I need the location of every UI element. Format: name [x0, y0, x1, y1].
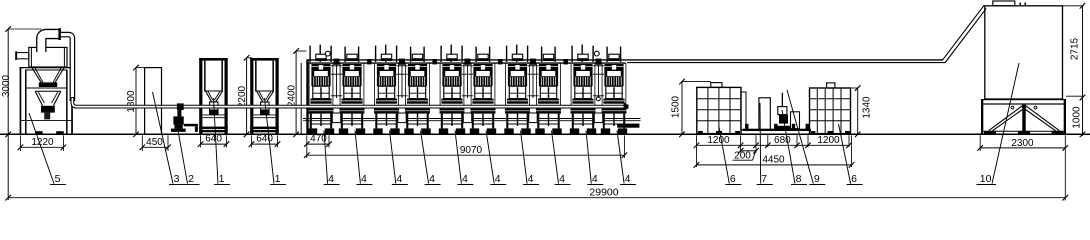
leader label 4	[521, 131, 540, 185]
leader label 9	[787, 90, 825, 185]
svg-text:4: 4	[625, 173, 631, 185]
press pair link rods	[528, 65, 539, 98]
press pair coupling	[399, 59, 405, 65]
inlet stub pipe of unit 5	[15, 51, 29, 60]
dimension 200	[733, 147, 759, 162]
filter press 4 unit 10	[601, 47, 627, 134]
svg-text:3: 3	[174, 173, 180, 185]
cabinet unit 7	[759, 98, 770, 130]
dimension 470	[304, 134, 332, 148]
dimension 640	[249, 134, 281, 148]
press pair link rods	[331, 65, 342, 98]
svg-text:4: 4	[559, 173, 565, 185]
press pair lower box	[463, 113, 471, 123]
dosing pump unit 8	[775, 93, 790, 130]
svg-text:640: 640	[256, 134, 273, 145]
svg-text:9070: 9070	[460, 145, 483, 156]
svg-text:1200: 1200	[707, 135, 730, 146]
dimension 1500	[671, 79, 711, 137]
pipe flange	[58, 28, 61, 40]
svg-text:1340: 1340	[862, 96, 873, 119]
pipe riser to silo	[942, 5, 986, 63]
press gap coupling	[367, 59, 372, 64]
filter press 4 unit 5	[439, 45, 465, 134]
press pair link rods	[462, 65, 473, 98]
press pair lower box	[529, 113, 537, 123]
svg-text:2: 2	[188, 173, 194, 185]
panel behind tank 6 left	[741, 92, 746, 130]
press pair link rods	[593, 65, 604, 98]
leader label 4	[455, 131, 473, 185]
press gap coupling	[498, 59, 503, 64]
press pair link rods	[397, 65, 408, 98]
leader label 4	[617, 131, 636, 185]
exhaust pipe from cyclone (wide elbow)	[41, 34, 59, 53]
press pair coupling	[334, 59, 340, 65]
filter press 4 unit 3	[373, 45, 399, 134]
filter press 4 unit 2	[339, 47, 365, 134]
press row conveyor lines	[303, 119, 641, 121]
hopper unit 1 (left)	[199, 58, 228, 134]
svg-text:4: 4	[462, 173, 468, 185]
filter press 4 unit 9	[570, 45, 596, 134]
svg-text:680: 680	[774, 135, 791, 146]
dimension 29900	[5, 135, 1068, 200]
dimension 2200	[237, 55, 252, 137]
leader label 4	[324, 131, 340, 185]
pipe end flange	[624, 103, 629, 110]
leader label 3	[153, 92, 186, 185]
leader label 1	[214, 98, 231, 185]
cyclone vessel of unit 5	[29, 47, 67, 67]
svg-text:6: 6	[851, 173, 857, 185]
svg-text:4450: 4450	[762, 154, 785, 165]
pipe down-leg elbow	[61, 35, 73, 101]
dimension 4450	[694, 135, 855, 168]
dimension 3000	[1, 26, 42, 200]
svg-text:3000: 3000	[1, 74, 12, 97]
dust collector unit 5 frame	[20, 67, 73, 134]
IBC tank 6 right	[810, 83, 851, 134]
ground line	[0, 133, 1090, 135]
svg-text:4: 4	[495, 173, 501, 185]
dimension 9070	[304, 135, 627, 158]
leader label 8	[782, 110, 807, 185]
filter press 4 unit 7	[504, 45, 530, 134]
funnel and discharge of unit 5	[32, 67, 65, 119]
svg-text:2715: 2715	[1070, 37, 1081, 60]
filter press 4 unit 4	[404, 47, 430, 134]
press gap coupling	[563, 59, 568, 64]
svg-text:1500: 1500	[671, 95, 682, 118]
svg-text:5: 5	[55, 173, 61, 185]
svg-text:450: 450	[146, 137, 163, 148]
leader label 7	[757, 103, 773, 185]
svg-text:6: 6	[730, 173, 736, 185]
leader label 4	[355, 131, 372, 185]
svg-text:4: 4	[528, 173, 534, 185]
dimension 1220	[18, 135, 67, 151]
svg-text:4: 4	[429, 173, 435, 185]
leader label 6	[839, 124, 863, 185]
svg-text:4: 4	[396, 173, 402, 185]
svg-text:1: 1	[219, 173, 225, 185]
hopper unit 1 (right)	[250, 58, 279, 134]
filter press 4 unit 1	[308, 45, 334, 134]
leader label 5	[29, 113, 66, 185]
screen unit 3 (tall cabinet)	[145, 68, 162, 135]
dimension 450	[140, 135, 171, 151]
filter press 4 unit 6	[470, 47, 496, 134]
leader label 6	[719, 127, 741, 185]
press row top rail pipe	[306, 60, 944, 63]
svg-text:1200: 1200	[817, 135, 840, 146]
leader label 4	[586, 131, 603, 185]
pump unit 2	[171, 103, 198, 132]
dimension 2715	[1063, 3, 1086, 136]
dimension 640	[198, 134, 230, 148]
dimension 2400	[286, 48, 306, 137]
press pair coupling	[465, 59, 471, 65]
dimension 1800	[126, 65, 146, 137]
press pair lower box	[332, 113, 340, 123]
svg-text:1800: 1800	[126, 90, 137, 113]
leader label 4	[552, 131, 571, 185]
leader label 4	[421, 131, 441, 185]
press pair lower box	[398, 113, 406, 123]
leader label 10	[977, 63, 1020, 185]
dimensions 1200 680 1200	[694, 135, 852, 148]
svg-text:1: 1	[275, 173, 281, 185]
pipe manifold at tanks	[743, 124, 812, 131]
press pair lower box	[594, 113, 602, 123]
IBC tank 6 left	[697, 83, 741, 134]
svg-text:10: 10	[980, 173, 992, 185]
press pair coupling	[596, 59, 602, 65]
svg-text:640: 640	[205, 134, 222, 145]
svg-text:4: 4	[361, 173, 367, 185]
svg-text:29900: 29900	[589, 186, 618, 198]
filter press 4 unit 8	[535, 47, 561, 134]
svg-text:4: 4	[592, 173, 598, 185]
leader label 4	[390, 131, 408, 185]
svg-text:2400: 2400	[286, 84, 297, 107]
press row end frame post	[301, 60, 308, 134]
svg-text:8: 8	[796, 173, 802, 185]
press pair coupling	[530, 59, 536, 65]
tank unit 9	[791, 112, 800, 129]
svg-text:9: 9	[814, 173, 820, 185]
press valve wheel A	[325, 51, 330, 56]
conveyor discharge bar	[617, 124, 639, 128]
svg-text:1220: 1220	[31, 137, 54, 148]
dimension 1340	[851, 85, 873, 137]
leader label 2	[177, 122, 200, 185]
svg-text:1000: 1000	[1072, 106, 1083, 129]
svg-text:7: 7	[761, 173, 767, 185]
dimension 2300	[977, 135, 1068, 151]
press valve wheel B	[594, 51, 599, 56]
silo support stand	[981, 99, 1066, 134]
long suction pipe to presses	[72, 97, 627, 107]
svg-text:2300: 2300	[1011, 138, 1034, 149]
dimension 1000	[1072, 106, 1086, 137]
leader label 4	[486, 131, 506, 185]
press gap coupling	[432, 59, 437, 64]
press valve wheel C	[596, 97, 600, 101]
silo tank unit 10	[985, 1, 1063, 99]
svg-text:4: 4	[328, 173, 334, 185]
leader label 1	[265, 98, 287, 185]
